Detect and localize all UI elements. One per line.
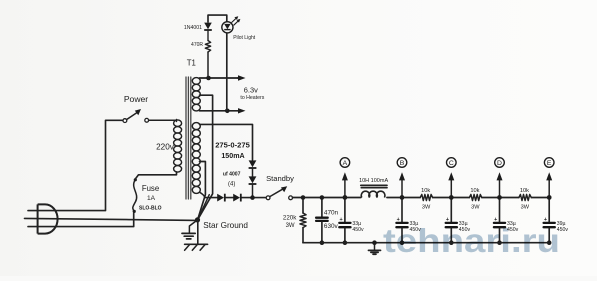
svg-text:Power: Power	[124, 94, 148, 104]
wire - pilot light cathode to heater tap	[226, 33, 228, 111]
wire - HV center tap to star ground	[198, 162, 206, 220]
svg-text:220k: 220k	[283, 214, 297, 221]
wire - B+ top rail B-C	[402, 197, 451, 199]
wire - B+ top rail C-D	[451, 197, 499, 199]
label 10k 3W (R2)	[421, 188, 431, 211]
resistor R1 470R	[205, 41, 210, 79]
label Pilot Light	[233, 35, 256, 41]
capacitor C6 39µ 450v (node E)	[544, 195, 569, 245]
svg-text:E: E	[547, 160, 552, 167]
wire - HV bottom tap to bottom rail	[200, 192, 205, 198]
svg-text:10k: 10k	[470, 188, 479, 194]
wire - mains earth (middle prong) to star ground	[25, 218, 198, 220]
diode D5 uf4007	[233, 194, 241, 202]
label 470R	[191, 42, 203, 48]
arrow - output tap C	[448, 172, 454, 200]
switch S2 Standby	[266, 186, 292, 200]
label 1N4001	[184, 25, 202, 31]
svg-text:275-0-275: 275-0-275	[215, 141, 250, 150]
label 220v	[156, 142, 175, 151]
capacitor C2 33µ 450v (node A)	[339, 195, 364, 245]
LED pilot light	[222, 16, 241, 33]
svg-text:3W: 3W	[521, 204, 530, 210]
label 10k 3W (R3)	[470, 188, 480, 211]
label 10k 3W (R4)	[520, 188, 530, 211]
diode D4 uf4007	[217, 194, 225, 202]
svg-text:3W: 3W	[471, 204, 480, 210]
wire - B+ top rail choke-B	[387, 197, 402, 199]
svg-text:tehnari.ru: tehnari.ru	[383, 222, 560, 259]
junction - star ground node	[195, 217, 200, 222]
svg-text:10k: 10k	[421, 188, 430, 194]
wire - filter ground rail	[303, 242, 549, 244]
transformer T1 primary winding 220v	[174, 120, 182, 173]
ground - chassis symbol at star	[185, 220, 208, 250]
svg-text:220v: 220v	[156, 142, 175, 151]
label Fuse 1A SLO-BLO	[139, 184, 162, 212]
AC wall plug P1	[38, 204, 58, 233]
wire - heater winding bottom tap	[200, 110, 238, 112]
capacitor C3 33µ 450v (node B)	[396, 195, 421, 245]
wire - mains live (top prong) to power switch	[28, 120, 123, 210]
node E	[544, 158, 554, 168]
wire - B+ top rail D-E	[500, 197, 550, 199]
arrow - output tap B	[399, 172, 405, 200]
arrow - 6.3v heater feed (bottom)	[237, 108, 246, 113]
svg-text:470n: 470n	[324, 210, 339, 217]
transformer T1 heater winding 6.3v	[192, 78, 200, 111]
resistor R5 220k bleeder	[300, 195, 306, 243]
svg-text:Pilot Light: Pilot Light	[233, 35, 256, 41]
switch S1 Power	[123, 109, 177, 123]
node B	[397, 158, 407, 168]
svg-text:Star Ground: Star Ground	[203, 221, 248, 230]
wire - pilot light top loop	[208, 15, 227, 22]
wire - star ground stub (third fan line)	[198, 195, 210, 220]
svg-text:T1: T1	[187, 59, 196, 68]
svg-text:D: D	[497, 160, 502, 167]
label 275-0-275 150mA	[215, 141, 250, 160]
wire - heater center tap to star ground	[198, 95, 213, 220]
label 10H 100mA	[359, 178, 388, 184]
svg-text:630v: 630v	[324, 223, 339, 230]
arrow - output tap A	[342, 172, 348, 200]
svg-text:C: C	[449, 160, 454, 167]
svg-text:SLO-BLO: SLO-BLO	[139, 205, 162, 211]
wire - HV top tap to rectifier	[200, 124, 253, 159]
svg-text:Fuse: Fuse	[142, 184, 159, 193]
svg-text:3W: 3W	[286, 223, 295, 229]
label Star Ground	[203, 221, 248, 230]
wire - mains neutral (bottom prong) to fuse	[28, 213, 134, 226]
svg-text:1N4001: 1N4001	[184, 25, 202, 31]
node C	[447, 158, 457, 168]
label 6.3v to Heaters	[240, 86, 264, 101]
resistor R4 10k (D-E)	[519, 194, 531, 200]
diode D3 uf4007	[249, 169, 257, 198]
diode D1 1N4001	[204, 23, 212, 41]
capacitor C1 470n	[316, 195, 328, 245]
diode D2 uf4007	[249, 160, 257, 168]
label 470n 630v	[324, 210, 339, 230]
wire - heater winding top tap	[200, 77, 238, 79]
resistor R2 10k (B-C)	[420, 194, 432, 200]
capacitor C5 33µ 450v (node D)	[494, 195, 519, 245]
transformer T1 high-voltage winding 275-0-275	[192, 123, 200, 194]
svg-text:A: A	[343, 160, 348, 167]
ground - filter ground symbol	[369, 240, 381, 254]
fuse F1	[133, 178, 137, 213]
svg-text:(4): (4)	[228, 182, 235, 188]
arrow - 6.3v heater feed (top)	[237, 75, 246, 80]
svg-text:3W: 3W	[422, 204, 431, 210]
wire - primary bottom to fuse top	[135, 172, 176, 179]
wire - bottom rectifier rail	[205, 197, 266, 199]
svg-text:6.3v: 6.3v	[244, 86, 258, 95]
label T1	[187, 59, 196, 68]
svg-text:150mA: 150mA	[221, 152, 244, 160]
junction - heater top tap / pilot chain	[206, 76, 211, 81]
node A	[340, 158, 350, 168]
junction - rectifier output	[250, 195, 255, 200]
svg-text:470R: 470R	[191, 42, 203, 48]
watermark tehnari.ru	[383, 222, 560, 259]
svg-text:450v: 450v	[352, 227, 364, 233]
transformer T1 core	[186, 77, 191, 199]
wire - standby to filter input	[293, 197, 346, 199]
arrow - output tap E	[546, 172, 552, 200]
wire - B+ top rail A-B	[345, 197, 361, 199]
arrow - output tap D	[497, 172, 503, 200]
junction - heater bottom tap / pilot light	[225, 109, 230, 114]
svg-text:1A: 1A	[147, 195, 156, 202]
node D	[495, 158, 505, 168]
svg-text:33µ: 33µ	[352, 221, 361, 227]
capacitor C4 33µ 450v (node C)	[446, 195, 471, 245]
svg-text:10k: 10k	[520, 188, 529, 194]
svg-text:10H 100mA: 10H 100mA	[359, 178, 388, 184]
svg-text:uf 4007: uf 4007	[223, 172, 241, 178]
label 220k 3W	[283, 214, 297, 229]
svg-text:B: B	[400, 160, 405, 167]
inductor L1 choke	[361, 185, 387, 197]
svg-text:+: +	[340, 217, 343, 223]
label uf 4007 (4)	[223, 172, 241, 188]
svg-text:to Heaters: to Heaters	[240, 95, 264, 101]
ground - earth symbol at star	[182, 220, 198, 239]
svg-text:Standby: Standby	[266, 174, 294, 183]
label Standby	[266, 174, 294, 183]
label Power	[124, 94, 148, 104]
resistor R3 10k (C-D)	[469, 194, 481, 200]
